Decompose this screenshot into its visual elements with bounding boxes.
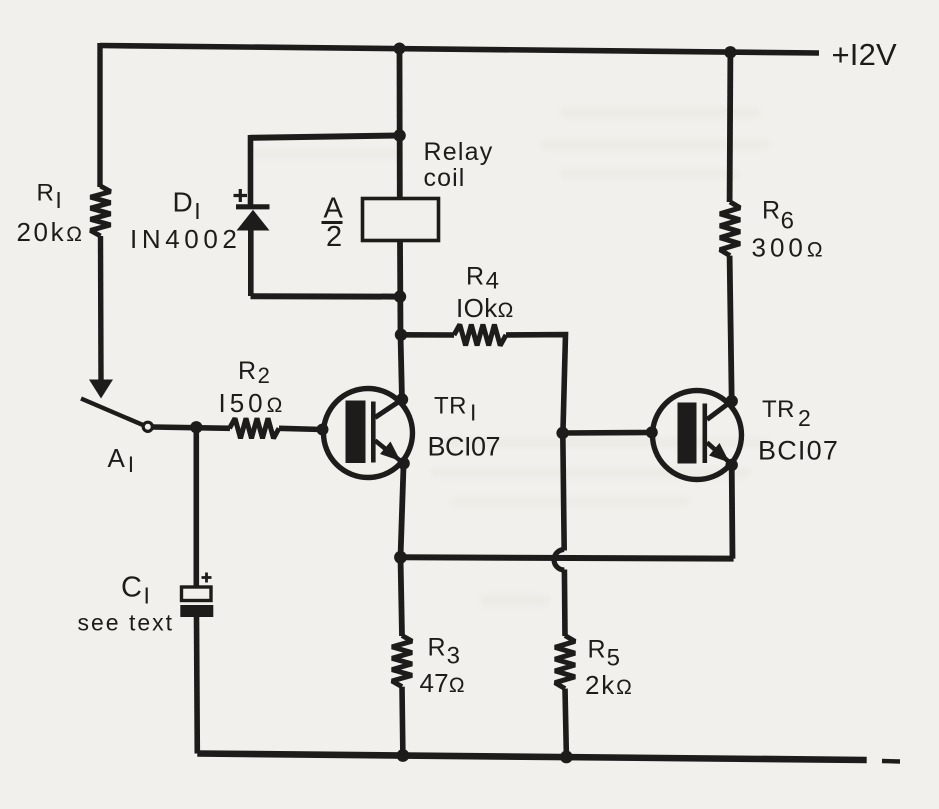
wire R6 branch: rail down to zigzag <box>727 52 734 202</box>
wire R1 bottom lead <box>98 236 104 381</box>
resistor R1 <box>91 186 111 236</box>
TR2 collector stroke <box>707 401 732 420</box>
wire TR2 base from junction <box>563 430 651 436</box>
wire D1 loop left upper lead <box>248 135 254 206</box>
node TR1 collector <box>396 393 408 405</box>
node bottom rail / R3 <box>397 749 410 762</box>
capacitor C1 bottom plate (solid) <box>180 605 213 617</box>
wire R5 to bottom rail <box>565 689 566 757</box>
svg-text:+I2V: +I2V <box>832 37 898 72</box>
svg-text:IN4002: IN4002 <box>130 224 241 254</box>
resistor R3 <box>392 636 412 687</box>
wire hop to R5 <box>562 570 568 637</box>
TR1 collector stroke <box>375 400 402 418</box>
TR1 base bar thin <box>371 402 376 463</box>
resistor R6 <box>720 202 740 256</box>
svg-text:A: A <box>324 193 344 225</box>
diode D1 triangle <box>237 210 270 231</box>
TR2 emitter stroke with arrowhead <box>707 443 729 463</box>
node TR1 emitter <box>397 457 409 469</box>
svg-text:coil: coil <box>424 164 466 192</box>
wire left branch R1 top lead <box>97 43 102 187</box>
switch open terminal circle <box>143 422 152 431</box>
minus terminal mark <box>882 759 900 764</box>
wire bottom rail <box>197 754 866 761</box>
node TR2 base terminal <box>646 426 658 438</box>
wire center spine: rail to relay coil <box>397 49 403 200</box>
wire C1 to bottom rail <box>194 617 200 754</box>
wire D1 loop left lower lead <box>248 228 254 296</box>
wire emitter link horizontal <box>401 557 734 558</box>
TR1 emitter stroke with arrowhead <box>375 441 400 461</box>
wire R4 left lead <box>401 332 454 338</box>
wire top supply rail <box>100 46 819 54</box>
svg-text:BCI07: BCI07 <box>428 432 501 462</box>
svg-text:Relay: Relay <box>424 138 494 166</box>
svg-text:R4: R4 <box>466 263 499 295</box>
wire R3 to bottom rail <box>399 687 405 757</box>
wire D1 loop bottom <box>251 293 401 299</box>
node D1 bottom / relay line <box>394 290 406 302</box>
label capacitor plus <box>202 573 212 583</box>
capacitor C1 top plate (hollow) <box>182 587 212 601</box>
wire relay coil to R4 node and TR1 collector <box>400 241 402 400</box>
label diode plus <box>234 189 248 202</box>
svg-text:BCI07: BCI07 <box>758 436 839 466</box>
node emitter link junction <box>394 551 407 564</box>
resistor R2 <box>230 418 280 438</box>
diode D1 cathode bar <box>236 204 270 209</box>
arrowhead onto switch arm <box>89 380 113 399</box>
crossover hop (vertical wire jumps left over emitter wire) <box>554 550 564 571</box>
switch arm A1 <box>81 399 143 425</box>
node bottom rail / R5 <box>560 751 573 764</box>
node TR2 base branch <box>556 427 568 439</box>
transistor TR1 circle <box>324 389 413 478</box>
node top rail / relay branch <box>394 43 406 55</box>
node TR2 collector <box>726 395 738 407</box>
transistor TR2 circle <box>653 391 742 480</box>
node D1 top / relay line <box>393 129 405 141</box>
node A1/C1 junction <box>190 421 202 433</box>
wire vertical down to crossover hop <box>563 433 564 551</box>
TR2 base bar thin <box>703 404 708 464</box>
wire R4 right lead and corner down <box>506 335 566 430</box>
svg-text:see text: see text <box>78 610 175 636</box>
resistor R5 <box>555 636 575 689</box>
relay coil rectangle A/2 <box>363 199 439 241</box>
node TR2 emitter <box>726 459 738 471</box>
node top rail / R6 branch <box>724 46 736 58</box>
node TR1 base terminal <box>317 424 329 436</box>
TR1 base bar thick <box>346 401 366 464</box>
node R4 junction <box>395 329 407 341</box>
TR2 base bar thick <box>678 403 697 464</box>
wire R6 to TR2 collector <box>730 256 732 401</box>
wire C1 branch from node down <box>194 427 200 587</box>
wire D1 loop top <box>251 136 400 138</box>
wire emitter link vertical to TR2 emitter <box>729 465 736 559</box>
wire TR1 emitter down to R3 node <box>401 463 404 636</box>
svg-text:2: 2 <box>326 221 342 253</box>
resistor R4 <box>454 325 506 346</box>
wire R2 to TR1 base <box>279 428 322 429</box>
wire switch to R2 / C1 node <box>153 427 230 428</box>
